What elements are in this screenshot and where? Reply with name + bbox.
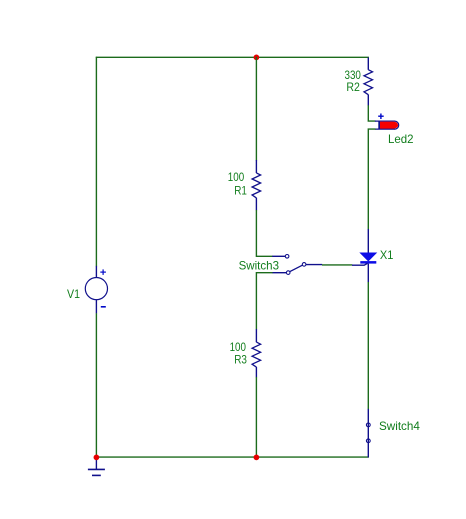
- junction node bottom middle: [254, 455, 260, 461]
- wire top horizontal net: [96, 56, 369, 58]
- resistor R3: [252, 329, 261, 377]
- wire middle branch (Switch3 lower throw to R3): [256, 273, 272, 330]
- junction node top (middle branch to top net): [254, 55, 260, 61]
- thyristor X1: [352, 229, 376, 282]
- switch Switch4: [366, 409, 370, 458]
- wire middle branch top (top net to R1): [255, 57, 257, 161]
- resistor R2: [364, 58, 373, 106]
- voltage source V1: [85, 266, 107, 314]
- wire left branch lower (V1 minus lead to bottom): [95, 313, 97, 458]
- junction node bottom left (ground): [94, 455, 100, 461]
- wire right branch (X1 cathode to Switch4): [367, 282, 369, 409]
- svg-text:R1: R1: [234, 184, 247, 198]
- wire left branch upper (top corner to V1 plus lead): [95, 57, 97, 267]
- ground: [88, 458, 105, 476]
- svg-text:Switch3: Switch3: [239, 259, 280, 273]
- wire gate net (Switch3 common to X1 gate): [322, 264, 352, 266]
- svg-text:Led2: Led2: [388, 132, 414, 146]
- svg-text:X1: X1: [380, 248, 394, 262]
- switch Switch3: [272, 254, 322, 274]
- svg-text:Switch4: Switch4: [379, 419, 420, 433]
- wire middle branch bottom (R3 to bottom net): [255, 377, 257, 458]
- wire right branch (Led2 cathode to X1 anode): [368, 129, 375, 229]
- svg-text:R3: R3: [234, 353, 247, 367]
- svg-text:R2: R2: [346, 80, 360, 94]
- wire middle branch (R1 to Switch3 upper throw): [256, 210, 272, 256]
- wire right branch (R2 to Led2 anode): [368, 105, 375, 121]
- wire bottom horizontal net: [96, 456, 369, 458]
- LED Led2: [375, 114, 399, 130]
- resistor R1: [252, 160, 261, 210]
- svg-text:V1: V1: [67, 287, 80, 301]
- svg-text:100: 100: [228, 170, 245, 184]
